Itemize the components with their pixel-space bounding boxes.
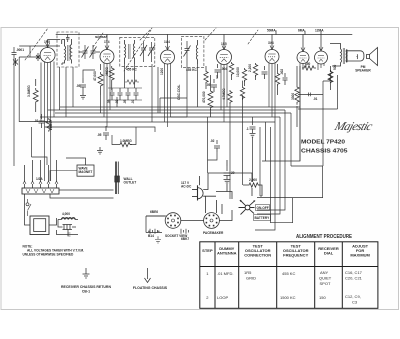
svg-text:.01: .01 — [313, 97, 318, 101]
svg-text:LOOP: LOOP — [217, 295, 228, 300]
svg-text:1S5: 1S5 — [221, 42, 227, 46]
svg-text:OSC.COIL: OSC.COIL — [177, 85, 181, 100]
svg-text:CB-1: CB-1 — [82, 290, 90, 294]
svg-text:OUTLET: OUTLET — [124, 181, 137, 185]
svg-text:6BE6: 6BE6 — [150, 210, 158, 214]
svg-text:.002: .002 — [280, 69, 284, 75]
svg-text:150: 150 — [305, 62, 311, 66]
svg-text:QUIET: QUIET — [319, 276, 332, 281]
svg-text:1U4: 1U4 — [164, 40, 170, 44]
svg-text:1T4: 1T4 — [104, 40, 110, 44]
svg-text:.05: .05 — [97, 133, 102, 137]
svg-text:10,000: 10,000 — [236, 67, 240, 77]
svg-text:.01: .01 — [34, 119, 39, 123]
svg-text:CHASSIS 4705: CHASSIS 4705 — [301, 149, 348, 155]
svg-text:455 KC: 455 KC — [282, 271, 295, 276]
svg-text:.05: .05 — [107, 99, 111, 104]
svg-text:MAXIMUM: MAXIMUM — [350, 253, 370, 258]
svg-text:470,000: 470,000 — [202, 91, 206, 103]
svg-text:GRID: GRID — [246, 276, 256, 281]
svg-text:6BK7: 6BK7 — [181, 237, 189, 241]
svg-text:3.3MEG: 3.3MEG — [27, 85, 31, 97]
svg-text:.05: .05 — [206, 83, 211, 87]
svg-text:12MA: 12MA — [315, 29, 324, 33]
svg-text:.02: .02 — [210, 139, 215, 143]
svg-text:150: 150 — [319, 295, 326, 300]
svg-text:C16, C17: C16, C17 — [345, 270, 363, 275]
svg-text:2MEG: 2MEG — [49, 120, 53, 130]
svg-text:.0001: .0001 — [16, 48, 24, 52]
svg-text:.01 MFD.: .01 MFD. — [217, 271, 233, 276]
svg-text:FREQUENCY: FREQUENCY — [283, 253, 308, 258]
svg-text:ANTENNA: ANTENNA — [217, 251, 237, 256]
svg-text:4.7MEG: 4.7MEG — [222, 88, 226, 100]
svg-text:C3: C3 — [352, 300, 358, 305]
svg-text:50MA: 50MA — [267, 29, 276, 33]
svg-text:signal: signal — [95, 34, 107, 39]
svg-text:MODEL 7P420: MODEL 7P420 — [301, 140, 346, 146]
svg-text:B14: B14 — [148, 234, 154, 238]
svg-text:.05: .05 — [123, 99, 127, 104]
svg-text:Majestic: Majestic — [332, 119, 375, 133]
svg-text:UNLESS OTHERWISE SPECIFIED: UNLESS OTHERWISE SPECIFIED — [23, 253, 74, 257]
svg-text:MAGNET: MAGNET — [79, 170, 93, 174]
svg-text:1200: 1200 — [160, 68, 164, 75]
svg-text:2,200: 2,200 — [248, 64, 252, 72]
svg-text:6MA: 6MA — [298, 29, 305, 33]
svg-text:C12, C9,: C12, C9, — [345, 294, 361, 299]
svg-text:CONNECTION: CONNECTION — [244, 253, 271, 258]
svg-text:STEP: STEP — [202, 248, 213, 253]
svg-text:ON-OFF: ON-OFF — [257, 206, 269, 210]
svg-text:455 KC: 455 KC — [186, 68, 198, 72]
svg-text:1R5: 1R5 — [244, 270, 252, 275]
svg-text:20: 20 — [231, 171, 235, 175]
svg-text:ALIGNMENT PROCEDURE: ALIGNMENT PROCEDURE — [296, 234, 352, 240]
svg-text:BATTERY: BATTERY — [255, 216, 271, 220]
svg-text:RECEIVER CHASSIS RETURN: RECEIVER CHASSIS RETURN — [61, 285, 111, 289]
svg-text:SPEAKER: SPEAKER — [355, 69, 371, 73]
svg-text:1500 KC: 1500 KC — [280, 295, 296, 300]
svg-text:.02: .02 — [115, 99, 119, 104]
svg-text:1R5: 1R5 — [44, 40, 50, 44]
svg-text:2,000: 2,000 — [249, 178, 257, 182]
svg-text:.1: .1 — [246, 127, 249, 131]
svg-text:.05: .05 — [76, 84, 81, 88]
svg-text:AC-DC: AC-DC — [181, 185, 192, 189]
svg-text:455 KC: 455 KC — [126, 68, 138, 72]
svg-text:FLOATING CHASSIS: FLOATING CHASSIS — [133, 286, 168, 290]
svg-text:3V4: 3V4 — [268, 41, 274, 45]
svg-text:47,000: 47,000 — [93, 71, 97, 81]
svg-text:C20, C21: C20, C21 — [345, 276, 363, 281]
svg-text:DIAL: DIAL — [324, 251, 334, 256]
svg-text:3MEG: 3MEG — [105, 66, 109, 76]
svg-text:4,000: 4,000 — [62, 212, 70, 216]
svg-text:.004: .004 — [221, 67, 227, 71]
svg-text:1/2A: 1/2A — [36, 177, 43, 181]
svg-text:1.0MEG: 1.0MEG — [120, 139, 132, 143]
svg-text:3300: 3300 — [291, 93, 295, 100]
svg-text:PACEMAKER: PACEMAKER — [203, 231, 224, 235]
svg-text:ANY: ANY — [320, 270, 329, 275]
svg-text:.01: .01 — [131, 99, 135, 104]
svg-text:500: 500 — [333, 64, 337, 70]
svg-text:SPOT: SPOT — [320, 281, 331, 286]
